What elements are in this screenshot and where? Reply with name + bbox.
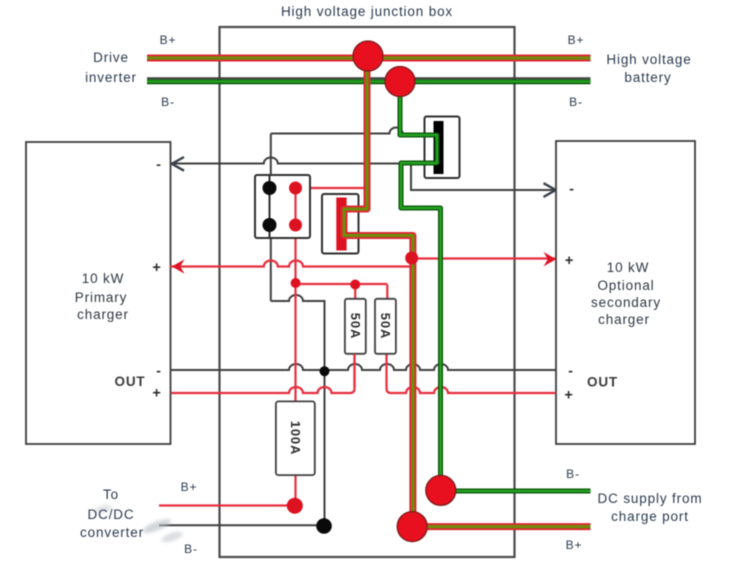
- arrow secondary minus: [544, 183, 556, 197]
- wire OUT minus bus: [171, 364, 556, 370]
- title label: [281, 4, 453, 19]
- svg-text:-: -: [156, 363, 162, 379]
- svg-text:-: -: [569, 181, 575, 197]
- svg-text:B+: B+: [566, 538, 583, 552]
- svg-text:B-: B-: [566, 467, 580, 481]
- wire OUT plus right: [387, 354, 557, 393]
- wire fuse feeder: [296, 284, 388, 299]
- svg-text:OUT: OUT: [114, 374, 145, 389]
- junction dot OUT minus: [320, 366, 330, 376]
- smudge marks: [93, 503, 183, 544]
- svg-text:50A: 50A: [378, 313, 393, 339]
- svg-text:Primary: Primary: [75, 290, 127, 305]
- svg-text:-: -: [568, 363, 574, 379]
- secondary charger box: [556, 141, 695, 444]
- label DC supply from charge port: [566, 467, 703, 552]
- junction dot DC/DC B+: [287, 498, 303, 514]
- svg-text:10 kW: 10 kW: [82, 271, 125, 286]
- svg-text:B-: B-: [161, 95, 175, 109]
- wire K1 column jog down to DC/DC B-: [271, 295, 325, 526]
- wire to DC/DC B+: [159, 504, 295, 506]
- svg-text:High voltage junction box: High voltage junction box: [281, 4, 453, 19]
- wire node to secondary plus: [412, 257, 556, 259]
- arrow primary plus: [172, 259, 185, 273]
- wire K1 red column to 100A fuse: [294, 188, 296, 505]
- junction dot red column top: [291, 278, 301, 288]
- fuse F3 100A: [276, 401, 315, 475]
- charge port B+ path (orange over red): [344, 50, 591, 527]
- wire OUT plus left: [171, 354, 355, 393]
- wire primary minus to secondary minus: [170, 158, 556, 191]
- B+ bus drive inverter to battery: [147, 55, 591, 62]
- junction dot plus node: [405, 252, 418, 265]
- svg-text:High voltage: High voltage: [606, 52, 691, 67]
- contactor K2 box with red blade: [322, 194, 359, 254]
- fuse F1 50A: [345, 299, 366, 388]
- label primary charger: [75, 156, 162, 402]
- junction dot DC/DC B-: [316, 518, 332, 534]
- svg-text:secondary: secondary: [591, 295, 661, 310]
- svg-text:Optional: Optional: [597, 278, 654, 293]
- arrow primary minus: [172, 157, 184, 171]
- fuse F2 50A: [375, 299, 396, 354]
- svg-text:+: +: [152, 260, 161, 276]
- B- bus drive inverter to battery: [147, 78, 591, 82]
- svg-text:battery: battery: [624, 70, 671, 85]
- svg-text:10 kW: 10 kW: [607, 260, 650, 275]
- wire primary plus: [170, 261, 410, 267]
- svg-text:B+: B+: [181, 480, 198, 494]
- svg-text:To: To: [103, 487, 119, 502]
- svg-text:DC supply from: DC supply from: [598, 491, 703, 506]
- wire red branch K1 to K2: [296, 188, 365, 209]
- label secondary charger: [564, 181, 661, 404]
- svg-text:DC/DC: DC/DC: [88, 507, 135, 522]
- svg-text:50A: 50A: [348, 313, 363, 339]
- junction box enclosure: [220, 27, 515, 557]
- svg-text:charger: charger: [598, 312, 650, 327]
- svg-text:B+: B+: [160, 33, 177, 47]
- node charge port B-: [426, 475, 456, 505]
- primary charger box: [26, 142, 171, 444]
- svg-text:converter: converter: [80, 525, 144, 540]
- contactor K1 box: [255, 175, 310, 238]
- node B- bus junction: [385, 67, 415, 97]
- label to DC/DC converter: [80, 480, 198, 556]
- svg-text:inverter: inverter: [85, 70, 137, 85]
- node B+ bus junction: [353, 41, 383, 71]
- label high voltage battery: [568, 33, 692, 109]
- wire contactor K1 column to contactor K3: [271, 128, 425, 302]
- svg-text:B+: B+: [568, 33, 585, 47]
- node charge port B+: [397, 512, 427, 542]
- svg-text:B-: B-: [569, 95, 583, 109]
- svg-text:charge port: charge port: [611, 509, 689, 524]
- junction dot fuse feeder: [350, 280, 360, 290]
- svg-text:charger: charger: [77, 307, 129, 322]
- label drive inverter: [85, 33, 176, 109]
- contactor K3 box with black blade: [425, 117, 460, 179]
- svg-text:-: -: [156, 156, 162, 172]
- svg-text:+: +: [565, 253, 574, 269]
- svg-text:OUT: OUT: [587, 375, 618, 390]
- svg-text:100A: 100A: [288, 421, 303, 455]
- svg-text:+: +: [564, 388, 573, 404]
- svg-text:B-: B-: [184, 542, 198, 556]
- charge port B- green path: [400, 75, 591, 491]
- arrow secondary plus: [544, 252, 557, 266]
- svg-text:+: +: [152, 386, 161, 402]
- svg-text:Drive: Drive: [93, 50, 129, 65]
- wire to DC/DC B-: [159, 524, 324, 526]
